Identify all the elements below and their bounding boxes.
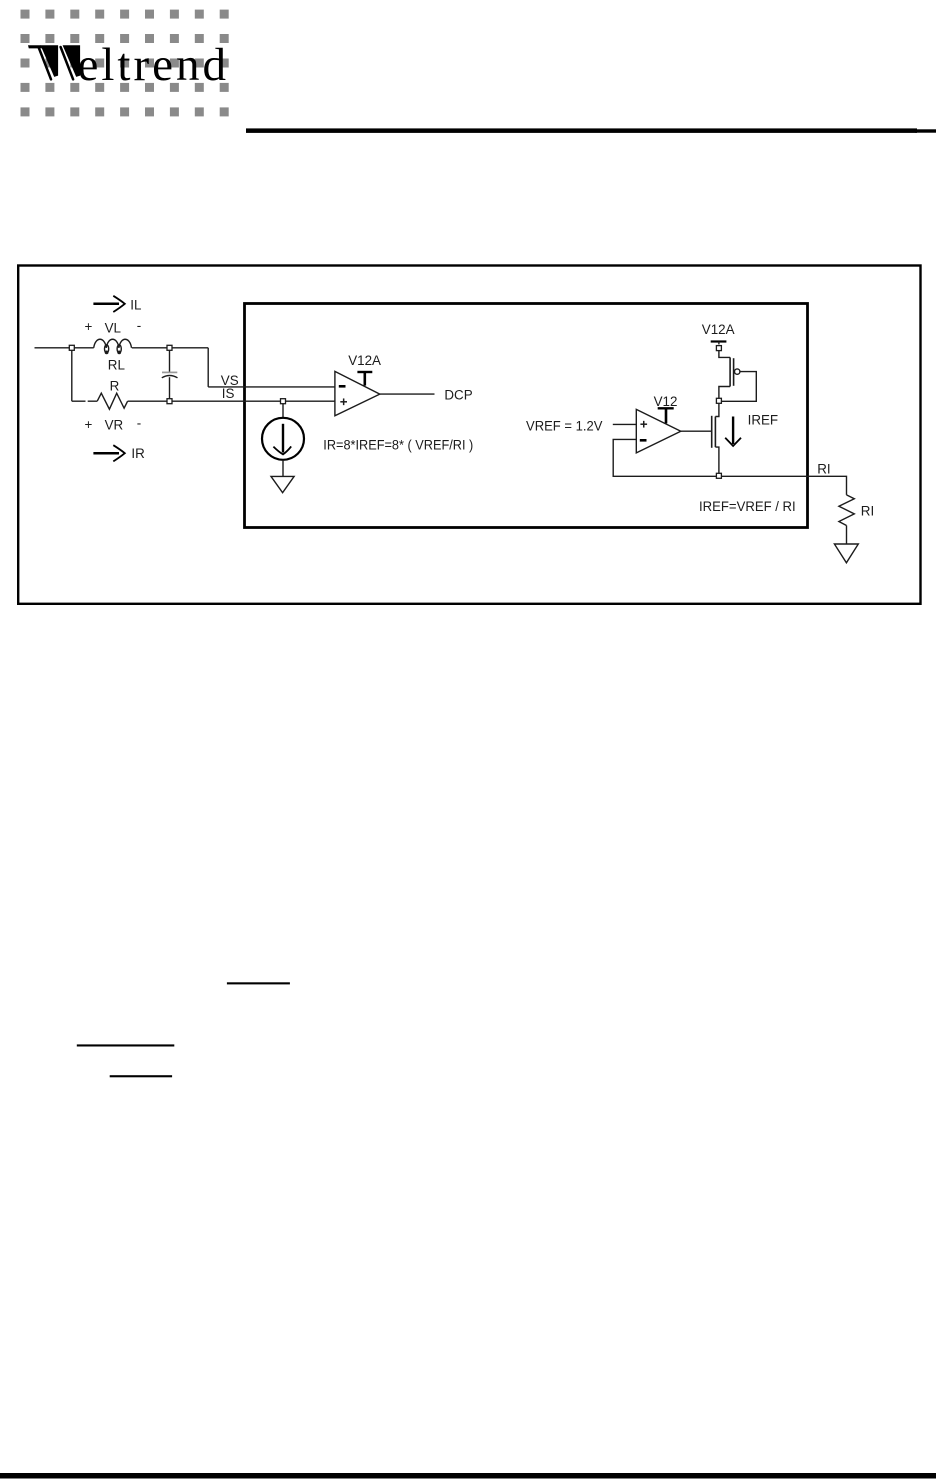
svg-text:IS: IS xyxy=(222,386,235,401)
wire: IS into block xyxy=(128,400,335,402)
wire: VREF input xyxy=(613,423,637,425)
power tap V12 on U2 xyxy=(658,407,674,409)
svg-text:IR: IR xyxy=(131,446,145,461)
svg-text:-: - xyxy=(137,318,141,333)
transistor Q2 channel bar xyxy=(714,417,716,448)
power tap V12A on U1A xyxy=(357,371,372,373)
op-amp U2 minus xyxy=(640,439,647,442)
wire: cap top stub xyxy=(169,350,171,372)
figure outer frame xyxy=(18,266,920,604)
svg-text:V12A: V12A xyxy=(702,322,735,337)
svg-text:V12: V12 xyxy=(654,394,678,409)
node: Q2 source / RI xyxy=(716,473,721,478)
node: V12A supply xyxy=(716,346,721,351)
transistor Q1 gate bubble xyxy=(735,369,740,374)
svg-text:V12A: V12A xyxy=(348,353,381,368)
svg-text:IREF=VREF / RI: IREF=VREF / RI xyxy=(699,499,796,514)
current source I1 xyxy=(262,418,304,460)
wire: left branch down xyxy=(71,348,73,401)
power bar V12A top right xyxy=(711,340,727,342)
svg-text:+: + xyxy=(85,417,93,432)
wire: RI net xyxy=(721,476,847,495)
fraction bar 1 xyxy=(227,982,290,984)
wire: input left xyxy=(35,347,94,349)
svg-text:-: - xyxy=(137,416,141,431)
transistor Q2 gate bar xyxy=(711,416,713,448)
junction nodes xyxy=(69,345,721,478)
transistor Q1 gate bar xyxy=(733,358,735,386)
svg-text:IL: IL xyxy=(130,297,141,312)
svg-text:eltrend: eltrend xyxy=(78,39,230,91)
op-amp U2 xyxy=(636,409,681,453)
svg-text:VR: VR xyxy=(105,417,124,432)
node: cap bottom xyxy=(167,399,172,404)
fraction bar 2 xyxy=(77,1044,175,1046)
svg-text:+: + xyxy=(85,319,93,334)
transistor Q2 drain stub xyxy=(715,403,719,417)
svg-text:IREF: IREF xyxy=(748,413,779,428)
wire: RI to ground xyxy=(846,526,848,544)
capacitor C plate top xyxy=(162,371,177,373)
fraction bar 3 xyxy=(110,1075,172,1077)
labels xyxy=(85,297,875,518)
op-amp U1A plus xyxy=(340,401,347,403)
svg-text:VL: VL xyxy=(105,321,121,336)
wire: current source to ground xyxy=(282,460,284,477)
wire: top to corner xyxy=(132,347,208,349)
IREF arrow xyxy=(732,417,734,445)
ground xyxy=(271,476,294,492)
IC block xyxy=(245,304,808,528)
capacitor C plate bottom xyxy=(162,376,178,378)
wire: cap bottom stub xyxy=(169,377,171,398)
resistor R xyxy=(97,393,127,409)
wire: gate-drain tie xyxy=(721,372,756,402)
inductor RL xyxy=(94,339,107,348)
transistor Q1 drain stub xyxy=(719,387,730,399)
header rule xyxy=(246,128,917,133)
resistor RI xyxy=(839,495,854,526)
wire: VS into block xyxy=(208,386,335,388)
logo W glyph xyxy=(28,45,80,79)
svg-text:RI: RI xyxy=(817,461,830,476)
svg-text:R: R xyxy=(110,379,120,394)
node: Q1-Q2 drain xyxy=(716,398,721,403)
node: IS / current source xyxy=(281,399,286,404)
transistor Q1 channel bar xyxy=(729,357,731,386)
svg-text:RL: RL xyxy=(108,358,125,373)
wire: pmos source xyxy=(719,351,730,358)
arrow IL xyxy=(93,303,119,306)
transistor Q2 source stub xyxy=(715,447,719,474)
wire: U2 out to Q2 gate xyxy=(681,430,712,432)
node: cap top xyxy=(167,345,172,350)
svg-text:IR=8*IREF=8* ( VREF/RI ): IR=8*IREF=8* ( VREF/RI ) xyxy=(323,438,473,453)
svg-text:VREF = 1.2V: VREF = 1.2V xyxy=(526,419,602,434)
arrow IR xyxy=(93,452,119,455)
wire: feedback xyxy=(613,439,717,476)
logo dot grid xyxy=(21,10,229,117)
footer bar xyxy=(0,1473,936,1479)
wire: DCP output xyxy=(380,393,435,395)
wire: current source top xyxy=(282,404,284,418)
op-amp U1A minus xyxy=(339,385,346,388)
svg-text:DCP: DCP xyxy=(444,387,472,402)
node: left branch xyxy=(69,345,74,350)
wire: to resistor R xyxy=(72,400,97,402)
ground xyxy=(834,544,858,563)
op-amp U2 plus xyxy=(640,423,647,425)
wire: corner down xyxy=(207,348,209,387)
svg-text:RI: RI xyxy=(861,504,874,519)
op-amp U1A xyxy=(335,371,380,415)
